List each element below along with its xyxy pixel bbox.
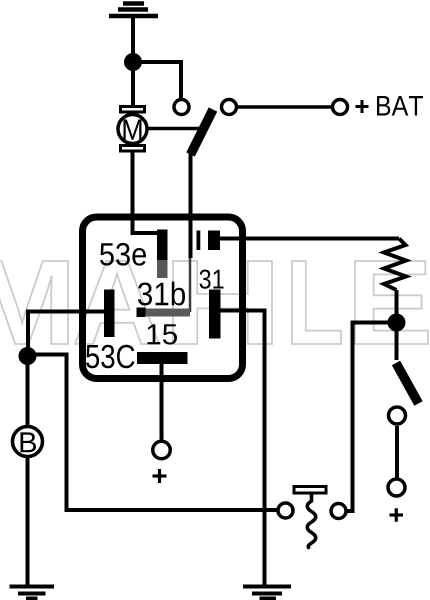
wire B to ground	[26, 458, 30, 585]
motor M body	[118, 115, 147, 144]
glow plug flame squiggle	[307, 495, 316, 548]
plus label 15	[153, 469, 167, 483]
ground (bottom left)	[10, 587, 55, 599]
label + BAT	[356, 100, 369, 113]
wire top ground to node	[131, 16, 135, 62]
wire switch S2 to plus terminal	[395, 426, 399, 478]
label 53C	[86, 345, 135, 369]
wire node to B	[26, 356, 30, 427]
plus terminal circle	[388, 479, 405, 496]
wire node to motor	[131, 62, 135, 106]
MAHLE watermark	[0, 261, 428, 344]
label 53e	[100, 243, 146, 266]
pin 15	[137, 352, 188, 364]
label 31b	[138, 282, 185, 306]
wire glow plug to resistor node	[348, 323, 389, 512]
label 31	[200, 270, 224, 289]
relay box	[83, 217, 243, 379]
switch S2 lever	[396, 363, 419, 404]
terminal B	[13, 427, 43, 457]
label 15	[148, 324, 178, 344]
watermark letter H	[173, 261, 272, 344]
wire motor to switch lever	[149, 127, 201, 131]
wire contact to resistor	[220, 237, 399, 241]
switch S1 lever	[191, 110, 214, 155]
pin 31b	[137, 308, 146, 318]
wire to battery terminal	[238, 105, 331, 109]
wire node to switch contact	[133, 62, 181, 100]
wire pin 15 down	[160, 364, 164, 441]
wire node to glow plug	[30, 355, 277, 511]
pin contact blade	[197, 231, 201, 251]
node junction dot (right)	[388, 314, 406, 332]
pin contact terminal	[208, 231, 220, 251]
glow plug heater element	[294, 487, 326, 494]
resistor R1	[384, 239, 406, 291]
switch S1 left contact	[174, 100, 189, 115]
wire resistor to node	[395, 290, 399, 316]
motor M top brush	[121, 107, 145, 113]
switch S2 contact	[389, 407, 406, 424]
internal link to 31b	[189, 258, 192, 312]
glow plug right terminal	[331, 504, 346, 519]
wire switch lever into relay	[189, 152, 193, 258]
glow plug left terminal	[278, 503, 293, 518]
ground (bottom center)	[243, 587, 291, 599]
motor M bottom brush	[121, 146, 145, 152]
battery terminal	[333, 100, 348, 115]
ground (top)	[109, 4, 158, 17]
pin 31	[209, 290, 221, 339]
plus label right	[390, 508, 404, 522]
watermark letter E	[355, 261, 428, 344]
wire node to switch S2	[395, 323, 399, 361]
wire motor to pin 53e	[133, 153, 159, 234]
node junction dot (top)	[124, 53, 142, 71]
node junction dot (left)	[19, 347, 37, 365]
pin 53C	[104, 290, 115, 338]
wire pin 31 to bottom ground	[221, 311, 265, 585]
terminal circle 15	[153, 441, 171, 459]
watermark letter M	[0, 261, 68, 344]
watermark letter A	[75, 261, 159, 344]
watermark letter L	[292, 261, 341, 344]
switch S1 right contact	[222, 100, 237, 115]
pin 53e	[157, 230, 168, 261]
wire pin 53C to node B	[28, 312, 104, 351]
